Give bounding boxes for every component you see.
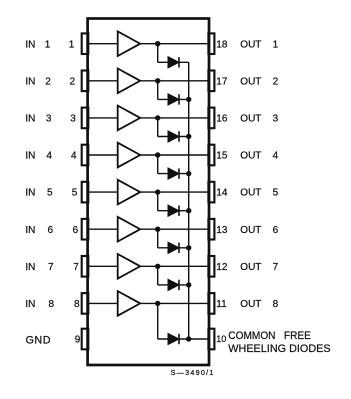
pin 15 package tab: [208, 145, 214, 166]
wire: input pin 1 to buffer A1: [89, 43, 119, 45]
diode D5: [168, 205, 179, 216]
diode D2: [168, 94, 179, 105]
junction: output 8 node: [155, 301, 160, 306]
junction: diode D8 cathode on common line: [186, 336, 191, 341]
wire: output 3 down to diode D3: [157, 118, 159, 137]
svg-text:IN: IN: [25, 299, 35, 310]
pin 6 package tab: [82, 219, 89, 240]
pin 9 package tab: [82, 329, 89, 350]
diode D8 cathode bar: [178, 334, 180, 344]
wire: common cathode line to pin 10: [188, 62, 190, 339]
buffer amplifier A2: [118, 69, 141, 94]
junction: output 3 node: [155, 115, 160, 120]
diode D3: [168, 131, 179, 142]
wire: input pin 6 to buffer A6: [89, 228, 119, 230]
wire: output 7 down to diode D7: [157, 266, 159, 285]
svg-text:14: 14: [216, 188, 228, 199]
junction: diode D3 cathode on common line: [186, 134, 191, 139]
svg-text:OUT: OUT: [240, 299, 261, 310]
junction: output 6 node: [155, 227, 160, 232]
svg-text:6: 6: [273, 225, 279, 236]
pin 8 package tab: [82, 293, 89, 314]
svg-text:17: 17: [216, 76, 228, 87]
diode D2 cathode bar: [178, 94, 180, 104]
pin 18 package tab: [208, 33, 214, 54]
wire: buffer A8 output to pin 11: [140, 302, 209, 304]
wire: input pin 4 to buffer A4: [89, 154, 119, 156]
svg-text:6: 6: [47, 225, 53, 236]
junction: output 4 node: [155, 152, 160, 157]
buffer amplifier A1: [118, 31, 141, 56]
svg-text:8: 8: [273, 299, 279, 310]
diode D8: [168, 333, 179, 344]
pin 10 package tab: [208, 329, 214, 350]
wire: diode D6 row: [158, 247, 189, 249]
svg-text:2: 2: [45, 76, 51, 87]
svg-text:1: 1: [273, 39, 279, 50]
diode D6: [168, 242, 179, 253]
svg-text:4: 4: [273, 151, 279, 162]
svg-text:S—3490/1: S—3490/1: [171, 368, 215, 377]
pin 7 package tab: [82, 256, 89, 277]
svg-text:OUT: OUT: [240, 262, 261, 273]
svg-text:7: 7: [73, 262, 79, 273]
svg-text:18: 18: [216, 39, 228, 50]
buffer amplifier A8: [118, 291, 141, 316]
svg-text:IN: IN: [25, 76, 35, 87]
svg-text:5: 5: [47, 188, 53, 199]
svg-text:OUT: OUT: [240, 225, 261, 236]
svg-text:5: 5: [72, 188, 78, 199]
wire: diode D7 row: [158, 284, 189, 286]
buffer amplifier A7: [118, 254, 141, 279]
wire: input pin 7 to buffer A7: [89, 265, 119, 267]
junction: diode D5 cathode on common line: [186, 208, 191, 213]
wire: diode D1 row: [158, 61, 189, 63]
svg-text:10: 10: [216, 334, 226, 344]
svg-text:16: 16: [216, 114, 228, 125]
wire: buffer A2 output to pin 17: [140, 80, 209, 82]
svg-text:2: 2: [69, 76, 75, 87]
wire: buffer A1 output to pin 18: [140, 43, 209, 45]
svg-text:3: 3: [70, 114, 76, 125]
junction: output 1 node: [155, 41, 160, 46]
svg-text:IN: IN: [25, 262, 35, 273]
pin 2 package tab: [82, 71, 89, 92]
pin 5 package tab: [82, 182, 89, 203]
pin 16 package tab: [208, 108, 214, 129]
svg-text:9: 9: [75, 335, 81, 346]
wire: input pin 2 to buffer A2: [89, 80, 119, 82]
svg-text:11: 11: [216, 299, 227, 310]
junction: diode D7 cathode on common line: [186, 282, 191, 287]
svg-text:7: 7: [273, 262, 279, 273]
diode D6 cathode bar: [178, 243, 180, 253]
svg-text:OUT: OUT: [240, 114, 261, 125]
diode D4: [168, 168, 179, 179]
pin 11 package tab: [208, 293, 214, 314]
wire: input pin 5 to buffer A5: [89, 191, 119, 193]
svg-text:4: 4: [46, 151, 52, 162]
svg-text:IN: IN: [25, 39, 35, 50]
svg-text:3: 3: [46, 114, 52, 125]
junction: diode D2 cathode on common line: [186, 97, 191, 102]
svg-text:7: 7: [48, 262, 54, 273]
svg-text:GND: GND: [26, 334, 52, 346]
pin 17 package tab: [208, 71, 214, 92]
junction: diode D6 cathode on common line: [186, 245, 191, 250]
wire: diode D2 row: [158, 98, 189, 100]
svg-text:OUT: OUT: [240, 151, 261, 162]
buffer amplifier A6: [118, 217, 141, 242]
wire: input pin 8 to buffer A8: [89, 302, 119, 304]
svg-text:4: 4: [71, 151, 77, 162]
diode D5 cathode bar: [178, 206, 180, 216]
buffer amplifier A3: [118, 106, 141, 131]
svg-text:6: 6: [72, 225, 78, 236]
junction: output 5 node: [155, 189, 160, 194]
wire: buffer A6 output to pin 13: [140, 228, 209, 230]
pin 1 package tab: [82, 33, 89, 54]
pin 4 package tab: [82, 145, 89, 166]
svg-text:12: 12: [216, 262, 228, 273]
junction: diode D4 cathode on common line: [186, 171, 191, 176]
wire: buffer A4 output to pin 15: [140, 154, 209, 156]
pin 13 package tab: [208, 219, 214, 240]
svg-text:COMMON FREE: COMMON FREE: [228, 330, 311, 342]
svg-text:OUT: OUT: [240, 188, 261, 199]
diode D3 cathode bar: [178, 131, 180, 141]
buffer amplifier A5: [118, 180, 141, 205]
wire: output 4 down to diode D4: [157, 155, 159, 174]
svg-text:OUT: OUT: [240, 39, 261, 50]
wire: buffer A7 output to pin 12: [140, 265, 209, 267]
wire: diode D8 row to pin 10: [158, 338, 209, 340]
svg-text:1: 1: [45, 39, 51, 50]
wire: buffer A5 output to pin 14: [140, 191, 209, 193]
junction: output 7 node: [155, 264, 160, 269]
svg-text:IN: IN: [25, 188, 35, 199]
wire: input pin 3 to buffer A3: [89, 117, 119, 119]
wire: output 5 down to diode D5: [157, 192, 159, 211]
wire: diode D5 row: [158, 210, 189, 212]
svg-text:IN: IN: [25, 114, 35, 125]
wire: output 1 down to diode D1: [157, 44, 159, 63]
svg-text:WHEELING DIODES: WHEELING DIODES: [228, 343, 330, 355]
pin 3 package tab: [82, 108, 89, 129]
diode D4 cathode bar: [178, 168, 180, 178]
diode D1 cathode bar: [178, 57, 180, 67]
diode D7 cathode bar: [178, 280, 180, 290]
pin 12 package tab: [208, 256, 214, 277]
IC body outline: [88, 19, 209, 366]
svg-text:5: 5: [273, 188, 279, 199]
svg-text:OUT: OUT: [240, 76, 261, 87]
wire: output 8 down to diode D8: [157, 303, 159, 339]
wire: diode D3 row: [158, 136, 189, 138]
wire: output 2 down to diode D2: [157, 81, 159, 100]
svg-text:1: 1: [69, 39, 75, 50]
wire: buffer A3 output to pin 16: [140, 117, 209, 119]
svg-text:IN: IN: [25, 151, 35, 162]
svg-text:2: 2: [273, 76, 279, 87]
diode D1: [168, 57, 179, 68]
pin 14 package tab: [208, 182, 214, 203]
svg-text:3: 3: [273, 114, 279, 125]
diode D7: [168, 279, 179, 290]
svg-text:15: 15: [216, 151, 228, 162]
junction: output 2 node: [155, 78, 160, 83]
wire: output 6 down to diode D6: [157, 229, 159, 248]
svg-text:8: 8: [74, 299, 80, 310]
svg-text:13: 13: [216, 225, 228, 236]
svg-text:8: 8: [49, 299, 55, 310]
svg-text:IN: IN: [25, 225, 35, 236]
wire: diode D4 row: [158, 173, 189, 175]
buffer amplifier A4: [118, 143, 141, 168]
